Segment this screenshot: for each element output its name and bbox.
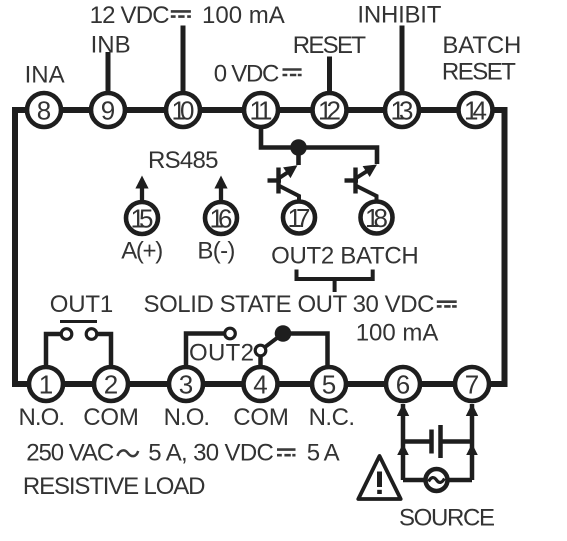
svg-text:0 VDC: 0 VDC	[214, 61, 280, 88]
svg-text:10: 10	[172, 96, 195, 126]
svg-text:B(-): B(-)	[197, 238, 235, 265]
svg-text:5: 5	[322, 370, 336, 400]
svg-text:SOURCE: SOURCE	[399, 505, 495, 532]
svg-text:RESET: RESET	[442, 59, 516, 86]
svg-text:SOLID STATE OUT 30 VDC: SOLID STATE OUT 30 VDC	[144, 291, 435, 318]
svg-text:250 VAC: 250 VAC	[26, 440, 114, 467]
svg-text:RESISTIVE LOAD: RESISTIVE LOAD	[23, 473, 206, 500]
svg-text:N.O.: N.O.	[164, 404, 211, 431]
svg-text:5 A, 30 VDC: 5 A, 30 VDC	[148, 440, 274, 467]
svg-text:3: 3	[179, 370, 193, 400]
svg-text:N.C.: N.C.	[309, 404, 356, 431]
svg-text:11: 11	[250, 96, 273, 126]
svg-text:RESET: RESET	[293, 32, 367, 59]
svg-text:INB: INB	[91, 32, 131, 59]
svg-text:100 mA: 100 mA	[356, 320, 439, 347]
svg-text:A(+): A(+)	[121, 238, 163, 265]
svg-text:RS485: RS485	[148, 147, 219, 174]
svg-text:12: 12	[318, 96, 341, 126]
svg-text:4: 4	[253, 370, 267, 400]
svg-text:8: 8	[37, 96, 51, 126]
svg-text:9: 9	[101, 96, 115, 126]
svg-text:18: 18	[365, 203, 388, 233]
svg-text:COM: COM	[233, 404, 289, 431]
svg-text:12 VDC: 12 VDC	[90, 2, 170, 29]
svg-text:15: 15	[131, 204, 154, 234]
svg-text:13: 13	[391, 96, 414, 126]
svg-text:16: 16	[210, 204, 233, 234]
svg-text:OUT2: OUT2	[189, 340, 254, 367]
svg-text:OUT2 BATCH: OUT2 BATCH	[271, 242, 419, 269]
svg-text:17: 17	[288, 203, 311, 233]
svg-text:14: 14	[464, 96, 487, 126]
svg-text:2: 2	[104, 370, 118, 400]
svg-text:6: 6	[396, 370, 410, 400]
svg-text:COM: COM	[83, 404, 139, 431]
svg-text:7: 7	[465, 370, 479, 400]
svg-text:OUT1: OUT1	[50, 291, 113, 318]
svg-text:100 mA: 100 mA	[202, 2, 285, 29]
svg-text:BATCH: BATCH	[442, 32, 521, 59]
svg-text:N.O.: N.O.	[19, 404, 66, 431]
svg-text:1: 1	[39, 370, 53, 400]
svg-text:INA: INA	[25, 62, 65, 89]
svg-text:INHIBIT: INHIBIT	[357, 2, 441, 29]
svg-text:5 A: 5 A	[307, 440, 340, 467]
